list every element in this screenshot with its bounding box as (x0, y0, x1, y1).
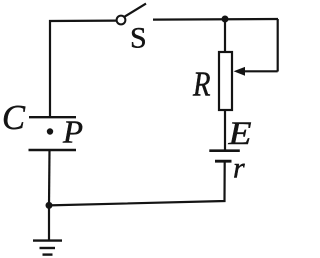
wire (224, 19, 226, 51)
wire (49, 161, 225, 205)
wire (277, 19, 279, 72)
svg-text:E: E (227, 116, 251, 152)
ground (33, 241, 62, 255)
wire slider feedback (234, 67, 278, 76)
wire (48, 205, 50, 240)
switch S (117, 4, 147, 55)
wire (48, 150, 51, 205)
wire (50, 21, 117, 117)
svg-text:R: R (192, 66, 210, 104)
node junction bottom (46, 202, 53, 209)
svg-text:r: r (233, 152, 245, 185)
resistor R (192, 52, 232, 110)
svg-text:P: P (62, 115, 83, 150)
wire (153, 18, 278, 21)
svg-text:C: C (2, 99, 26, 137)
capacitor C (2, 99, 76, 150)
battery cell E (209, 116, 251, 161)
point P between plates (47, 115, 83, 150)
wire (224, 110, 226, 150)
node junction top (222, 16, 229, 23)
svg-text:S: S (130, 22, 147, 55)
